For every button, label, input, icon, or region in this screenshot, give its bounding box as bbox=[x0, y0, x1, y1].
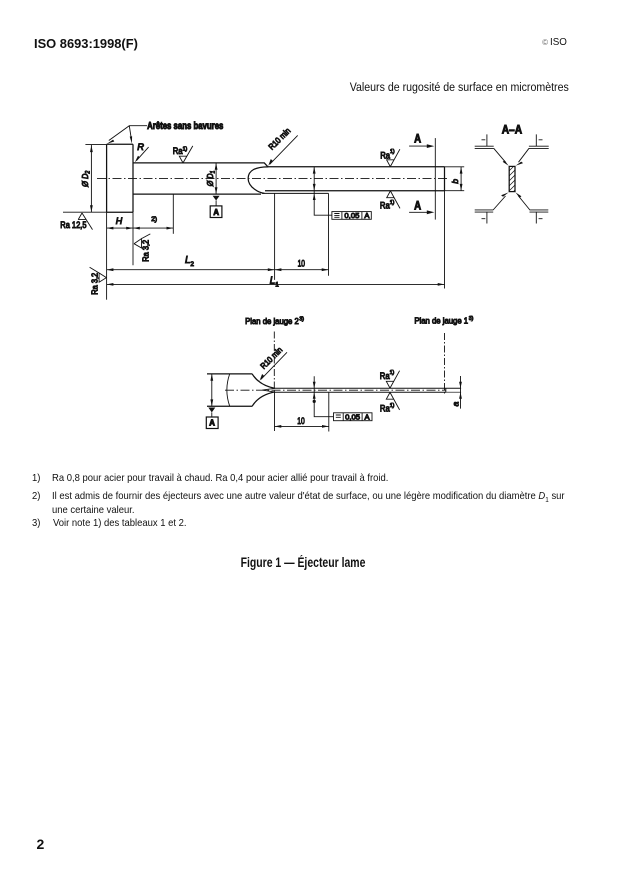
blade end (bottom view) bbox=[445, 388, 447, 392]
head outline bbox=[107, 144, 133, 212]
clamping leader lower-left bbox=[475, 192, 509, 223]
header right: copyright bbox=[542, 38, 548, 47]
svg-text:Plan de jauge 1: Plan de jauge 1 bbox=[414, 316, 468, 326]
gauge plane 2 trace line bbox=[273, 332, 275, 393]
blade cross-section rectangle with hatching bbox=[509, 166, 515, 191]
dimension L1 bbox=[107, 283, 445, 286]
footnote 1 bbox=[32, 473, 40, 484]
tolerance frame 0,05 A (main view) bbox=[332, 212, 371, 220]
svg-text:H: H bbox=[116, 216, 123, 226]
svg-text:Ra 3,2: Ra 3,2 bbox=[91, 272, 100, 295]
blade right end face bbox=[444, 167, 446, 191]
cutting plane line A-A bbox=[434, 138, 436, 220]
svg-text:A: A bbox=[414, 198, 421, 212]
dimension 2) (note ref) bbox=[133, 194, 173, 234]
svg-text:Ø D1: Ø D1 bbox=[205, 171, 217, 187]
roughness symbol Ra 12,5 under head bottom bbox=[78, 213, 92, 230]
break line arc bbox=[227, 374, 230, 406]
leader: aretes sans bavures bbox=[107, 126, 147, 144]
dimension 10 (main view) bbox=[275, 193, 329, 280]
dimension H bbox=[107, 227, 133, 230]
gauge plane 1 trace line bbox=[444, 333, 446, 395]
dimension phi D2 bbox=[90, 145, 93, 212]
svg-text:2): 2) bbox=[151, 216, 157, 223]
dimension b at blade end bbox=[460, 167, 463, 191]
svg-text:A: A bbox=[414, 132, 421, 146]
roughness symbol Ra1) above blade bbox=[387, 149, 400, 166]
blade top edge bbox=[268, 166, 445, 168]
svg-text:b: b bbox=[450, 179, 460, 184]
footnote 2 bbox=[32, 491, 40, 502]
transition curves to blade (bottom view) bbox=[252, 374, 275, 407]
svg-text:R10 min: R10 min bbox=[266, 125, 292, 151]
parallelism tolerance leader (bottom view) bbox=[313, 376, 334, 417]
parallelism tolerance leader (main view) bbox=[313, 167, 332, 215]
bottom view centerline bbox=[225, 389, 446, 391]
figure caption bbox=[67, 555, 540, 570]
svg-text:10: 10 bbox=[297, 416, 304, 426]
tolerance frame 0,05 A (bottom view) bbox=[334, 413, 373, 421]
section arrow A bottom bbox=[409, 210, 434, 214]
svg-text:1): 1) bbox=[390, 149, 395, 155]
shaft top edge bbox=[133, 163, 268, 167]
svg-text:Ra 12,5: Ra 12,5 bbox=[60, 220, 86, 230]
roughness symbol Ra1) above blade (bottom view) bbox=[386, 371, 399, 388]
page number bbox=[37, 836, 45, 852]
dimension 10 (bottom view) bbox=[275, 392, 329, 431]
footnote 3 bbox=[32, 518, 40, 529]
section arrow A top bbox=[409, 144, 434, 148]
dimension a at blade end (bottom view) bbox=[459, 376, 462, 409]
svg-text:A–A: A–A bbox=[502, 122, 523, 136]
svg-text:R10 min: R10 min bbox=[258, 345, 284, 371]
leader: fillet radius R bbox=[135, 147, 149, 162]
svg-text:3): 3) bbox=[299, 316, 304, 322]
svg-text:Ra 3,2: Ra 3,2 bbox=[142, 239, 151, 262]
svg-text:2: 2 bbox=[190, 261, 194, 268]
blade edges (bottom view) bbox=[274, 388, 461, 392]
roughness symbol Ra1) on shaft top bbox=[179, 146, 193, 163]
svg-text:1): 1) bbox=[390, 370, 395, 376]
roughness symbol Ra 3,2 on head left face bbox=[90, 267, 107, 282]
svg-text:1: 1 bbox=[275, 281, 279, 288]
svg-text:a: a bbox=[450, 402, 460, 407]
head right face extension line down bbox=[132, 212, 134, 265]
header left: document number bbox=[34, 36, 138, 51]
transition oval (milled runout) bbox=[248, 167, 268, 194]
svg-text:A: A bbox=[365, 412, 371, 421]
shaft bottom edge bbox=[133, 193, 261, 195]
roughness symbol Ra1) below blade bbox=[387, 191, 400, 209]
head bottom extension line bbox=[63, 211, 107, 213]
clamping leader upper-left bbox=[475, 134, 509, 165]
svg-text:A: A bbox=[213, 208, 219, 217]
svg-text:0,05: 0,05 bbox=[344, 211, 359, 220]
blade bottom edge bbox=[265, 190, 445, 192]
svg-text:A: A bbox=[209, 418, 215, 427]
leader R10 min (bottom view) bbox=[260, 352, 288, 381]
svg-text:Plan de jauge 2: Plan de jauge 2 bbox=[245, 316, 299, 326]
svg-text:1): 1) bbox=[390, 200, 395, 206]
roughness symbol Ra1) below blade (bottom view) bbox=[386, 392, 399, 410]
svg-text:Arêtes sans bavures: Arêtes sans bavures bbox=[147, 121, 223, 132]
clamping leader upper-right bbox=[516, 134, 549, 165]
dimension D1 with datum A (bottom view) bbox=[206, 374, 218, 429]
svg-text:Ø D2: Ø D2 bbox=[80, 170, 92, 188]
clamping leader lower-right bbox=[516, 192, 549, 223]
svg-text:1): 1) bbox=[390, 403, 395, 409]
dimension L2 bbox=[107, 268, 275, 271]
svg-text:1): 1) bbox=[183, 146, 188, 152]
leader R10 min (main view) bbox=[268, 135, 298, 166]
flat witness line under blade bbox=[262, 192, 329, 194]
head left face extension line down bbox=[106, 212, 108, 300]
dimension phi D1 with datum A bbox=[210, 163, 222, 218]
subtitle: surface roughness values note bbox=[350, 80, 569, 94]
roughness symbol Ra 3,2 on head right face bbox=[134, 234, 150, 248]
svg-text:0,05: 0,05 bbox=[345, 412, 360, 421]
blade end extension line down to L1 bbox=[444, 191, 446, 289]
head top extension line bbox=[85, 144, 106, 146]
svg-text:3): 3) bbox=[469, 316, 474, 322]
shaft edges (bottom view) bbox=[207, 374, 252, 406]
svg-text:A: A bbox=[364, 211, 370, 220]
svg-text:R: R bbox=[137, 141, 144, 152]
svg-text:10: 10 bbox=[298, 259, 305, 269]
centerline of ejector axis bbox=[97, 178, 447, 180]
